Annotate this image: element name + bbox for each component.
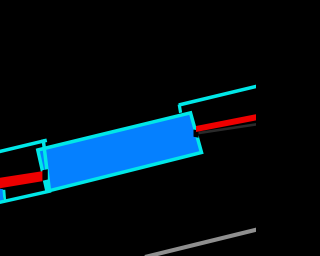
unhighlighted trace (dark, below red): [199, 123, 257, 134]
neighbour body corner (blue patch, bottom-left): [0, 189, 3, 203]
trace from pad 2 (red): [196, 114, 256, 132]
board outline / dimension line (gray): [145, 229, 258, 256]
pad 2 courtyard top edge (cyan line to right): [179, 86, 257, 105]
courtyard top-right corner bump: [42, 140, 47, 141]
component body R1 (blue fill, cyan outline): [38, 113, 202, 192]
pad 1 courtyard box (left, cyan outline): [0, 141, 50, 204]
pad 1 (black square): [42, 169, 47, 180]
neighbour body right-edge border stub: [3, 190, 7, 200]
trace to pad 1 (red): [0, 171, 43, 188]
pad 2 courtyard left-edge stub: [179, 105, 180, 113]
pad 2 (black square on body right edge): [194, 130, 199, 138]
